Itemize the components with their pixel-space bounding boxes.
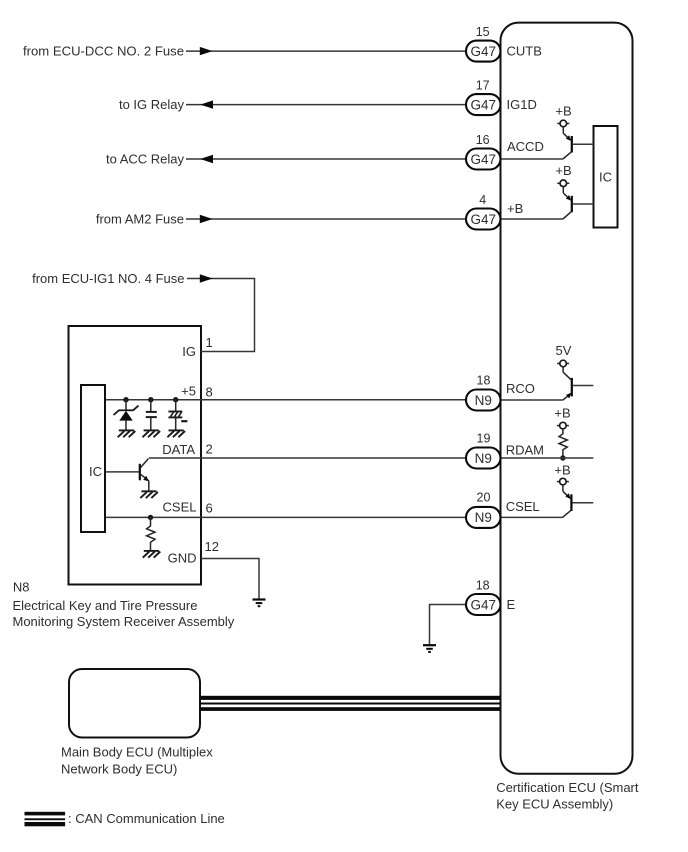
connector N9 pin 20 CSEL <box>466 491 540 528</box>
svg-text:Main Body ECU (Multiplex: Main Body ECU (Multiplex <box>61 744 213 759</box>
svg-text:N9: N9 <box>475 451 492 466</box>
arrow from ECU-DCC NO.2 Fuse (right) <box>200 47 213 55</box>
svg-text:20: 20 <box>477 491 491 505</box>
svg-text:N9: N9 <box>475 393 492 408</box>
wire +B row <box>186 218 563 220</box>
connector G47 pin 17 IG1D <box>466 79 537 115</box>
CAN bus line Main Body ECU to Certification ECU <box>200 696 501 711</box>
N8 receiver assembly box <box>69 326 202 585</box>
Certification ECU box U2 <box>501 23 633 774</box>
wire CSEL to N9 CSEL <box>106 516 467 518</box>
wire IG1D row <box>186 104 467 106</box>
svg-text:+B: +B <box>555 163 571 178</box>
svg-text:12: 12 <box>205 539 219 554</box>
svg-text:RDAM: RDAM <box>506 443 544 458</box>
pin label CSEL pin 6 <box>163 500 213 516</box>
node junction on +5 rail at zener <box>123 397 128 402</box>
pin label IG pin 1 <box>182 335 212 359</box>
transistor Q2 PNP for ACCD <box>555 103 593 159</box>
ground chassis at C1 <box>143 430 161 437</box>
svg-text:ACCD: ACCD <box>507 139 544 154</box>
node junction on +5 rail at capacitor C2 <box>173 397 178 402</box>
arrow to ACC Relay (left) <box>200 155 213 163</box>
wire ACCD row <box>186 158 563 160</box>
transistor Q3 PNP for +B <box>555 163 593 219</box>
svg-text:to ACC Relay: to ACC Relay <box>106 152 185 167</box>
svg-text:Key ECU Assembly): Key ECU Assembly) <box>496 797 613 812</box>
wire CUTB row <box>186 50 467 52</box>
svg-text:G47: G47 <box>471 97 497 112</box>
svg-text:18: 18 <box>476 579 490 593</box>
Main Body ECU box <box>69 669 200 738</box>
svg-text:G47: G47 <box>471 212 497 227</box>
svg-text:IC: IC <box>89 464 102 479</box>
svg-text:Certification ECU (Smart: Certification ECU (Smart <box>496 780 639 795</box>
svg-text:19: 19 <box>477 432 491 446</box>
ground earth at E <box>423 645 436 652</box>
svg-text:+B: +B <box>555 103 571 118</box>
svg-text:CSEL: CSEL <box>163 500 197 515</box>
svg-text:from ECU-DCC NO. 2 Fuse: from ECU-DCC NO. 2 Fuse <box>23 44 184 59</box>
wire from ECU-IG1 NO.4 Fuse to IG pin <box>187 278 255 352</box>
svg-text:Electrical Key and Tire Pressu: Electrical Key and Tire Pressure <box>13 598 198 613</box>
svg-text:16: 16 <box>476 133 490 147</box>
svg-text:2: 2 <box>206 441 213 456</box>
svg-text:18: 18 <box>477 374 491 388</box>
connector G47 pin 15 CUTB <box>466 25 542 61</box>
svg-text:RCO: RCO <box>506 381 535 396</box>
node junction on CSEL wire at resistor <box>148 515 153 520</box>
connector G47 pin 16 ACCD <box>466 133 544 169</box>
capacitor C1 <box>146 400 157 430</box>
svg-text:IG1D: IG1D <box>507 97 537 112</box>
node junction RDAM wire <box>560 455 565 460</box>
connector G47 pin 18 E <box>466 579 516 615</box>
arrow from ECU-IG1 NO.4 Fuse (right) <box>200 274 213 282</box>
wire RDAM stub to internal circuit <box>501 457 594 459</box>
svg-text:CSEL: CSEL <box>506 499 540 514</box>
node junction on +5 rail at capacitor C1 <box>148 397 153 402</box>
wire GND pin 12 to ground <box>201 558 259 599</box>
capacitor C2 polarized <box>168 400 187 430</box>
svg-text:G47: G47 <box>471 44 497 59</box>
IC box U3 inside Certification ECU <box>594 126 618 228</box>
svg-text:from AM2 Fuse: from AM2 Fuse <box>96 212 184 227</box>
transistor Q5 PNP for CSEL <box>501 463 594 518</box>
label N8 <box>13 579 235 629</box>
connector N9 pin 18 RCO <box>466 374 535 411</box>
wire +5 rail to N9 RCO <box>106 399 467 401</box>
svg-text:G47: G47 <box>471 152 497 167</box>
svg-text:+5: +5 <box>181 384 196 399</box>
label Main Body ECU <box>61 744 213 776</box>
svg-text:GND: GND <box>168 550 197 565</box>
arrow from AM2 Fuse (right) <box>200 215 213 223</box>
IC box U1 inside N8 <box>81 385 105 532</box>
svg-text:+B: +B <box>554 405 570 420</box>
legend CAN communication line symbol <box>25 811 225 826</box>
svg-text:: CAN Communication Line: : CAN Communication Line <box>68 811 225 826</box>
svg-text:Monitoring System Receiver Ass: Monitoring System Receiver Assembly <box>13 614 235 629</box>
svg-text:17: 17 <box>476 79 490 93</box>
svg-text:+B: +B <box>507 201 523 216</box>
ground chassis at C2 <box>167 430 185 437</box>
svg-text:+B: +B <box>554 463 570 478</box>
ground earth at GND <box>253 600 266 607</box>
svg-text:IG: IG <box>182 344 196 359</box>
resistor R1 pulldown <box>147 517 155 550</box>
svg-text:Network Body ECU): Network Body ECU) <box>61 761 177 776</box>
svg-text:CUTB: CUTB <box>507 44 542 59</box>
arrow to IG Relay (left) <box>200 100 213 108</box>
transistor Q4 for RCO with 5V <box>501 343 594 400</box>
svg-text:15: 15 <box>476 25 490 39</box>
svg-text:DATA: DATA <box>162 442 195 457</box>
transistor Q1 NPN inside N8 <box>106 459 149 491</box>
ground chassis at Q1 emitter <box>140 491 158 498</box>
pin label GND pin 12 <box>168 539 219 565</box>
pin label DATA pin 2 <box>162 441 212 457</box>
connector G47 pin 4 +B <box>466 193 523 229</box>
svg-text:IC: IC <box>599 170 612 185</box>
svg-text:8: 8 <box>206 385 213 400</box>
resistor R2 to +B for RDAM <box>554 405 570 458</box>
svg-text:to IG Relay: to IG Relay <box>119 97 185 112</box>
zener diode D1 <box>114 400 139 430</box>
svg-text:6: 6 <box>206 501 213 516</box>
pin label +5 pin 8 <box>181 384 213 400</box>
svg-text:G47: G47 <box>471 597 497 612</box>
ground chassis at zener <box>118 430 136 437</box>
ground chassis at R1 <box>143 551 161 558</box>
wire DATA to N9 RDAM <box>149 457 467 459</box>
svg-text:E: E <box>507 597 516 612</box>
wire E row to ground <box>430 604 467 645</box>
svg-text:N8: N8 <box>13 579 30 594</box>
label Certification ECU <box>496 780 639 812</box>
svg-text:1: 1 <box>206 335 213 350</box>
svg-text:4: 4 <box>479 193 486 207</box>
svg-text:from ECU-IG1 NO. 4 Fuse: from ECU-IG1 NO. 4 Fuse <box>32 271 184 286</box>
svg-text:N9: N9 <box>475 510 492 525</box>
connector N9 pin 19 RDAM <box>466 432 544 469</box>
svg-text:5V: 5V <box>556 343 572 358</box>
